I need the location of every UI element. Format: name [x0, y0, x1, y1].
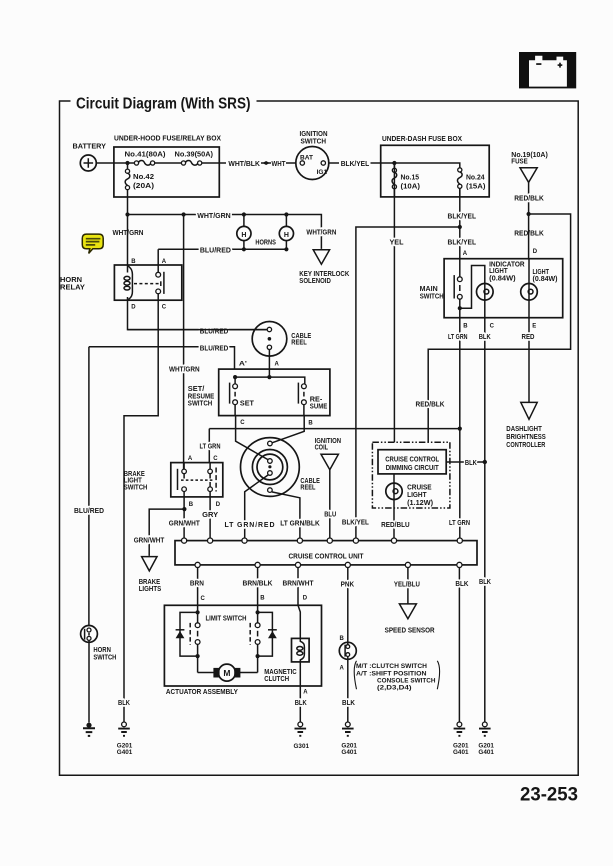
svg-text:BLK/YEL: BLK/YEL: [342, 520, 370, 527]
svg-text:D: D: [533, 249, 538, 255]
svg-text:H: H: [241, 232, 246, 239]
svg-text:D: D: [131, 305, 136, 311]
svg-text:RELAY: RELAY: [60, 284, 85, 291]
svg-text:No.39(50A): No.39(50A): [175, 152, 214, 159]
svg-text:M/T :CLUTCH SWITCH: M/T :CLUTCH SWITCH: [356, 664, 427, 670]
svg-text:B: B: [260, 596, 265, 602]
svg-text:No.41(80A): No.41(80A): [125, 152, 166, 159]
svg-text:LT GRN: LT GRN: [448, 334, 468, 341]
svg-text:RED/BLK: RED/BLK: [514, 196, 544, 203]
svg-text:H: H: [284, 232, 289, 239]
svg-text:SET/: SET/: [188, 386, 205, 393]
svg-text:RED: RED: [522, 334, 535, 341]
svg-text:A: A: [188, 456, 193, 462]
svg-text:LIGHT: LIGHT: [407, 492, 427, 499]
svg-text:RED/BLU: RED/BLU: [381, 522, 410, 529]
svg-text:PNK: PNK: [341, 581, 355, 588]
svg-text:G201: G201: [341, 743, 357, 749]
svg-text:Circuit Diagram (With SRS): Circuit Diagram (With SRS): [76, 96, 251, 113]
svg-text:FUSE: FUSE: [511, 158, 528, 165]
svg-text:A': A': [239, 361, 248, 367]
svg-text:G201: G201: [478, 743, 494, 749]
svg-text:23-253: 23-253: [520, 785, 578, 806]
svg-text:RESUME: RESUME: [188, 393, 215, 400]
svg-text:CRUISE CONTROL UNIT: CRUISE CONTROL UNIT: [289, 553, 365, 560]
svg-text:(15A): (15A): [466, 184, 486, 191]
svg-text:C: C: [240, 420, 245, 426]
svg-text:COIL: COIL: [315, 445, 329, 452]
svg-text:BRIGHTNESS: BRIGHTNESS: [506, 434, 546, 441]
svg-text:SWITCH: SWITCH: [188, 401, 213, 408]
svg-text:D: D: [303, 596, 308, 602]
svg-text:(2,D3,D4): (2,D3,D4): [377, 686, 412, 692]
svg-text:BLU/RED: BLU/RED: [200, 247, 231, 254]
svg-text:WHT/GRN: WHT/GRN: [306, 230, 336, 237]
svg-text:SET: SET: [240, 401, 255, 408]
svg-text:BLK: BLK: [479, 579, 491, 586]
svg-text:E: E: [532, 324, 536, 330]
svg-text:A/T :SHIFT POSITION: A/T :SHIFT POSITION: [356, 672, 427, 678]
svg-text:No.42: No.42: [133, 174, 154, 181]
svg-text:UNDER-DASH FUSE BOX: UNDER-DASH FUSE BOX: [382, 136, 462, 143]
svg-text:G401: G401: [453, 750, 469, 756]
svg-text:CLUTCH: CLUTCH: [264, 676, 289, 683]
svg-text:(0.84W): (0.84W): [533, 276, 558, 283]
svg-text:SPEED SENSOR: SPEED SENSOR: [385, 627, 435, 634]
svg-text:A: A: [463, 251, 468, 257]
svg-text:A: A: [162, 259, 167, 265]
svg-text:A: A: [275, 361, 280, 367]
svg-text:LIMIT SWITCH: LIMIT SWITCH: [206, 616, 247, 623]
svg-text:CRUISE CONTROL: CRUISE CONTROL: [385, 456, 440, 463]
svg-text:G201: G201: [117, 743, 133, 749]
svg-text:C: C: [201, 596, 206, 602]
svg-text:GRN/WHT: GRN/WHT: [169, 520, 201, 527]
svg-text:B: B: [463, 324, 468, 330]
svg-text:DASHLIGHT: DASHLIGHT: [506, 426, 542, 433]
svg-text:BLK: BLK: [295, 700, 307, 707]
svg-text:HORN: HORN: [60, 277, 82, 284]
svg-text:WHT: WHT: [272, 161, 287, 168]
svg-text:DIMMING CIRCUIT: DIMMING CIRCUIT: [386, 465, 440, 472]
svg-text:LIGHT: LIGHT: [489, 268, 508, 275]
svg-text:G301: G301: [294, 744, 310, 750]
svg-text:BLK/YEL: BLK/YEL: [341, 161, 370, 168]
svg-text:RED/BLK: RED/BLK: [416, 401, 445, 408]
svg-text:No.15: No.15: [401, 175, 420, 182]
svg-text:BLK: BLK: [479, 334, 491, 341]
svg-text:G201: G201: [453, 743, 469, 749]
svg-text:SOLENOID: SOLENOID: [299, 278, 331, 285]
svg-text:CRUISE: CRUISE: [407, 485, 432, 492]
svg-text:GRY: GRY: [202, 512, 218, 519]
svg-text:B: B: [189, 502, 194, 508]
svg-text:G401: G401: [341, 750, 357, 756]
svg-text:BLK: BLK: [118, 700, 130, 707]
svg-text:LT GRN/BLK: LT GRN/BLK: [280, 520, 320, 527]
svg-text:WHT/GRN: WHT/GRN: [169, 367, 200, 374]
svg-text:BATTERY: BATTERY: [73, 144, 107, 151]
svg-text:GRN/WHT: GRN/WHT: [134, 538, 165, 545]
svg-text:(0.84W): (0.84W): [489, 276, 515, 283]
svg-text:KEY INTERLOCK: KEY INTERLOCK: [299, 271, 349, 278]
svg-text:LIGHTS: LIGHTS: [139, 586, 162, 593]
svg-text:BLU/RED: BLU/RED: [200, 345, 229, 352]
svg-text:LIGHT: LIGHT: [533, 269, 550, 276]
svg-text:SWITCH: SWITCH: [124, 484, 148, 491]
svg-text:IG1: IG1: [317, 170, 328, 176]
svg-text:BLK: BLK: [465, 460, 477, 467]
svg-text:M: M: [223, 668, 230, 678]
svg-text:REEL: REEL: [300, 485, 316, 492]
svg-text:SUME: SUME: [310, 403, 328, 410]
svg-text:C: C: [213, 456, 218, 462]
svg-text:BLU: BLU: [324, 512, 336, 519]
svg-text:D: D: [216, 502, 221, 508]
svg-text:YEL/BLU: YEL/BLU: [394, 581, 420, 588]
svg-text:HORN: HORN: [93, 647, 111, 654]
svg-text:No.24: No.24: [466, 175, 485, 182]
svg-text:LT GRN/RED: LT GRN/RED: [225, 522, 275, 529]
svg-text:A: A: [340, 665, 345, 671]
svg-text:B: B: [340, 636, 345, 642]
svg-text:REEL: REEL: [291, 340, 307, 347]
svg-text:BLK/YEL: BLK/YEL: [448, 213, 477, 220]
svg-text:G401: G401: [117, 750, 133, 756]
svg-text:BRN/WHT: BRN/WHT: [283, 580, 315, 587]
svg-text:BLK: BLK: [455, 581, 468, 588]
svg-text:WHT/BLK: WHT/BLK: [228, 161, 260, 168]
svg-text:G401: G401: [478, 750, 494, 756]
svg-text:LT GRN: LT GRN: [200, 444, 221, 451]
svg-text:SWITCH: SWITCH: [301, 138, 327, 145]
svg-text:BLK: BLK: [342, 700, 355, 707]
svg-text:B: B: [308, 421, 313, 427]
svg-text:BRN/BLK: BRN/BLK: [243, 580, 273, 587]
svg-text:CONSOLE SWITCH: CONSOLE SWITCH: [377, 678, 436, 684]
svg-text:HORNS: HORNS: [255, 239, 276, 246]
svg-text:BRN: BRN: [190, 580, 204, 587]
svg-text:BAT: BAT: [300, 155, 313, 161]
svg-text:C: C: [162, 305, 167, 311]
svg-text:(1.12W): (1.12W): [407, 500, 433, 507]
svg-text:(20A): (20A): [133, 183, 154, 190]
svg-text:SWITCH: SWITCH: [420, 294, 444, 301]
svg-text:LT GRN: LT GRN: [449, 520, 470, 527]
svg-text:BLU/RED: BLU/RED: [74, 508, 104, 515]
svg-text:C: C: [490, 324, 495, 330]
svg-text:CONTROLLER: CONTROLLER: [506, 442, 545, 449]
svg-text:(10A): (10A): [401, 184, 421, 191]
svg-text:UNDER-HOOD FUSE/RELAY BOX: UNDER-HOOD FUSE/RELAY BOX: [114, 136, 221, 143]
svg-text:WHT/GRN: WHT/GRN: [197, 213, 231, 220]
svg-text:B: B: [131, 259, 136, 265]
svg-text:SWITCH: SWITCH: [93, 655, 116, 662]
svg-text:BLK/YEL: BLK/YEL: [448, 239, 477, 246]
svg-text:MAIN: MAIN: [420, 286, 438, 293]
svg-text:IGNITION: IGNITION: [300, 131, 328, 138]
svg-text:ACTUATOR ASSEMBLY: ACTUATOR ASSEMBLY: [166, 689, 238, 696]
svg-text:YEL: YEL: [390, 239, 405, 246]
svg-text:A: A: [303, 689, 308, 695]
